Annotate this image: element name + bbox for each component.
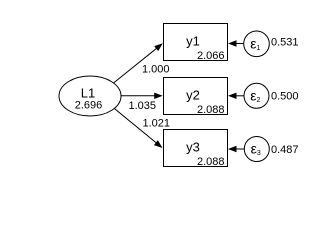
svg-text:1.035: 1.035 xyxy=(129,100,157,112)
observed variable y3 (rect) xyxy=(164,130,228,167)
error term e3 (circle) xyxy=(244,137,269,162)
svg-text:0.531: 0.531 xyxy=(271,37,299,49)
svg-text:0.500: 0.500 xyxy=(271,91,299,103)
svg-text:2.066: 2.066 xyxy=(197,50,225,62)
observed variable y2 (rect) xyxy=(164,78,228,115)
svg-text:1.000: 1.000 xyxy=(142,64,170,76)
path arrow L1 to y1 xyxy=(114,43,163,83)
svg-text:y3: y3 xyxy=(186,140,200,155)
svg-text:0.487: 0.487 xyxy=(271,144,299,156)
svg-text:2.088: 2.088 xyxy=(197,104,225,116)
error arrow e1 to y1 xyxy=(228,40,244,46)
error term e2 (circle) xyxy=(244,83,269,108)
svg-text:y2: y2 xyxy=(186,88,200,103)
latent variable L1 (ellipse) xyxy=(59,76,121,116)
svg-text:2.696: 2.696 xyxy=(75,100,103,112)
svg-text:1.021: 1.021 xyxy=(143,118,171,130)
svg-text:y1: y1 xyxy=(186,34,200,49)
path arrow L1 to y2 xyxy=(121,93,163,99)
observed variable y1 (rect) xyxy=(164,24,228,61)
error arrow e3 to y3 xyxy=(228,146,244,152)
svg-text:L1: L1 xyxy=(81,86,95,101)
error term e1 (circle) xyxy=(244,31,270,57)
error arrow e2 to y2 xyxy=(228,93,244,99)
path arrow L1 to y3 xyxy=(115,109,163,148)
svg-text:2.088: 2.088 xyxy=(197,156,225,168)
